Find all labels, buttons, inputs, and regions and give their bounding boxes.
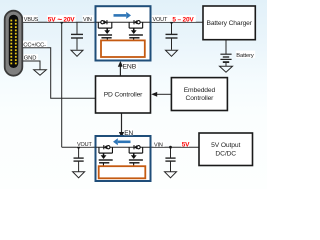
svg-text:EN: EN xyxy=(124,130,133,137)
svg-text:VOUT: VOUT xyxy=(153,17,168,23)
svg-text:VIN: VIN xyxy=(83,17,92,23)
svg-text:5V Output: 5V Output xyxy=(211,142,240,149)
svg-text:CC+/CC-: CC+/CC- xyxy=(23,42,46,48)
svg-text:Battery Charger: Battery Charger xyxy=(206,20,252,27)
svg-text:VOUT: VOUT xyxy=(77,142,92,148)
svg-text:DC/DC: DC/DC xyxy=(215,150,236,157)
svg-text:VIN: VIN xyxy=(154,142,163,148)
svg-text:Battery: Battery xyxy=(236,53,254,59)
svg-text:5V ~ 20V: 5V ~ 20V xyxy=(48,15,76,24)
svg-text:GND: GND xyxy=(24,56,36,62)
svg-text:5 – 20V: 5 – 20V xyxy=(172,16,194,23)
svg-text:Embedded: Embedded xyxy=(184,87,216,94)
svg-text:5V: 5V xyxy=(182,142,190,149)
svg-text:Controller: Controller xyxy=(186,95,215,102)
svg-text:ENB: ENB xyxy=(123,64,137,71)
svg-text:VBUS: VBUS xyxy=(24,17,39,23)
svg-text:PD Controller: PD Controller xyxy=(104,92,143,99)
